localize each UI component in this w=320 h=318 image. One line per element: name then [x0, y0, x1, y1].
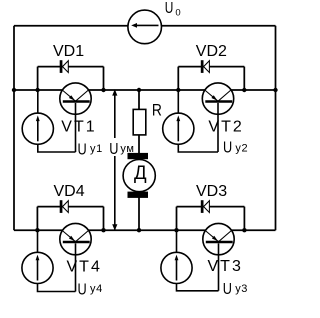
svg-text:U: U [165, 0, 174, 17]
svg-text:R: R [152, 101, 162, 120]
wire VD2 right drop [243, 67, 245, 90]
node VD3 left [174, 228, 178, 232]
measurement arrow Uym [112, 89, 117, 230]
current source Uy4 [22, 230, 76, 291]
label U0 [165, 0, 181, 18]
wire VD2 left drop [177, 67, 179, 90]
voltage source U0 [128, 10, 162, 44]
svg-text:VD4: VD4 [54, 183, 85, 200]
wire bottom rail [14, 229, 276, 231]
node VD1 left [35, 88, 39, 92]
diode VD1 [60, 60, 69, 73]
node VD4 right [101, 228, 105, 232]
label Uy4 [78, 281, 103, 298]
wire middle rail [14, 89, 276, 91]
node left-mid [12, 88, 16, 92]
wire VD4 left drop [36, 207, 38, 231]
svg-text:U: U [109, 141, 118, 158]
wire center column through R and motor [138, 90, 140, 230]
svg-text:VT4: VT4 [67, 258, 102, 275]
svg-text:Д: Д [134, 163, 147, 184]
label Uy1 [78, 141, 103, 158]
wire VD1 right drop [103, 67, 105, 90]
diode VD4 [60, 200, 69, 213]
svg-text:U: U [223, 281, 232, 298]
diode VD3 [201, 200, 210, 213]
svg-text:VT3: VT3 [208, 258, 243, 275]
node VD1 right [101, 88, 105, 92]
current source Uy2 [163, 90, 218, 152]
current source Uy3 [161, 230, 219, 291]
wire VD3 right drop [243, 207, 245, 231]
node motor bottom [137, 228, 141, 232]
node VD3 right [242, 228, 246, 232]
svg-text:U: U [223, 140, 232, 157]
wire VD1 horizontal [38, 66, 104, 68]
svg-text:у4: у4 [90, 283, 103, 295]
svg-text:VT1: VT1 [61, 118, 96, 135]
node VD2 left [176, 88, 180, 92]
node VD4 left [35, 228, 39, 232]
svg-text:у2: у2 [235, 142, 248, 154]
wire VD4 horizontal [37, 206, 103, 208]
svg-text:U: U [78, 281, 87, 298]
svg-text:0: 0 [175, 8, 180, 19]
label Uym [108, 138, 135, 158]
node right-mid [273, 88, 277, 92]
transistor VT4 [60, 223, 91, 291]
svg-text:у3: у3 [235, 283, 248, 295]
transistor VT3 [203, 223, 234, 290]
wire left border [13, 26, 15, 231]
resistor R [133, 109, 146, 134]
node R top [137, 88, 141, 92]
wire VD2 horizontal [178, 66, 244, 68]
label Uy2 [223, 140, 248, 157]
svg-text:VD3: VD3 [196, 183, 227, 200]
transistor VT2 [202, 83, 233, 152]
svg-text:VD2: VD2 [196, 43, 227, 60]
current source Uy1 [22, 90, 75, 152]
svg-text:ум: ум [120, 143, 134, 155]
svg-text:VT2: VT2 [208, 118, 243, 135]
wire VD3 left drop [176, 207, 178, 231]
wire top rail [14, 25, 276, 27]
svg-text:VD1: VD1 [53, 43, 84, 60]
motor D [123, 153, 155, 198]
svg-text:U: U [78, 141, 87, 158]
node VD2 right [242, 88, 246, 92]
wire VD1 left drop [37, 67, 39, 90]
transistor VT1 [60, 83, 91, 152]
label Uy3 [223, 281, 248, 298]
svg-text:у1: у1 [90, 143, 103, 155]
wire right border [275, 26, 277, 231]
wire VD4 right drop [103, 207, 105, 231]
wire VD3 horizontal [177, 206, 245, 208]
diode VD2 [201, 60, 210, 73]
